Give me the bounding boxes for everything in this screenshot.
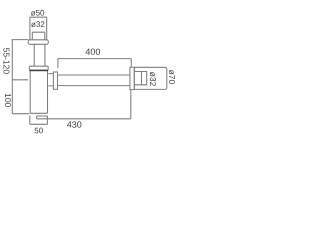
svg-text:55-120: 55-120 (2, 48, 12, 75)
svg-text:ø32: ø32 (31, 20, 45, 29)
svg-text:430: 430 (67, 120, 82, 130)
svg-text:ø32: ø32 (148, 72, 158, 87)
svg-text:ø70: ø70 (167, 70, 177, 85)
svg-text:100: 100 (3, 93, 13, 107)
svg-text:400: 400 (85, 47, 100, 57)
svg-text:50: 50 (34, 126, 43, 135)
svg-text:ø50: ø50 (31, 8, 45, 17)
